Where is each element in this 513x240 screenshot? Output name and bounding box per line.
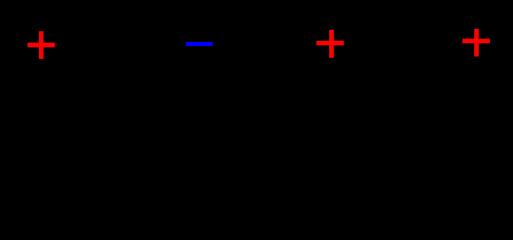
formal charge + on structure 1: [28, 31, 55, 59]
formal charge - on structure 1: [186, 42, 213, 46]
formal charge + on structure 3: [462, 29, 489, 57]
formal charge + on structure 2: [316, 30, 343, 58]
